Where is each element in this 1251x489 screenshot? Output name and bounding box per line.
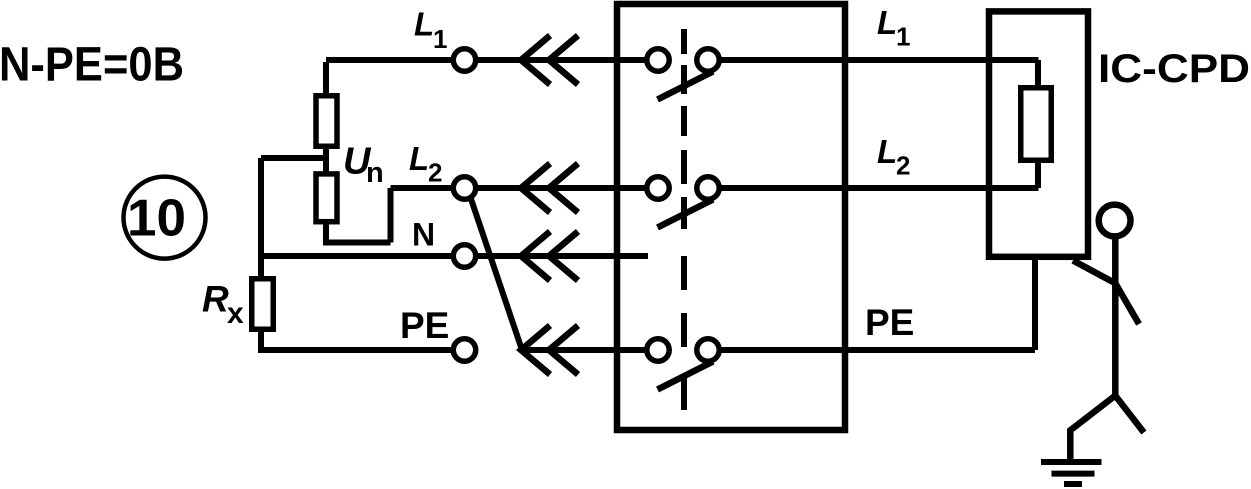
- svg-text:L: L: [877, 133, 897, 170]
- wire L1 from divider to terminal: [326, 57, 451, 63]
- wire divider bottom lead: [323, 222, 329, 243]
- contactor box: [617, 4, 845, 430]
- svg-text:IC-CPD: IC-CPD: [1098, 47, 1250, 91]
- wire PE riser up to IC-CPD bottom: [1032, 254, 1038, 350]
- wire L2 to terminal: [391, 185, 452, 191]
- wire L1 inside contactor to IC-CPD: [722, 57, 1039, 63]
- switch pole L2 blade: [658, 200, 714, 228]
- ground symbol bar 3: [1064, 481, 1082, 487]
- IC-CPD enclosure box: [989, 11, 1088, 256]
- switch pole L1 blade: [658, 72, 714, 100]
- switch pole L2 right contact: [697, 177, 719, 199]
- switch pole PE left contact: [647, 339, 669, 361]
- terminal L2: [453, 177, 475, 199]
- wire N stub into contactor: [478, 253, 648, 259]
- svg-text:n: n: [366, 157, 384, 189]
- wire fault diagonal from L2 terminal to PE arrow: [470, 196, 522, 349]
- wire IC-CPD resistor top lead: [1035, 60, 1041, 88]
- wire L2 from terminal to contactor: [478, 185, 645, 191]
- wire L1 from terminal to contactor: [478, 57, 645, 63]
- svg-text:x: x: [227, 297, 244, 330]
- terminal N: [453, 245, 475, 267]
- person right leg: [1115, 396, 1144, 433]
- svg-text:L: L: [409, 140, 429, 177]
- wire left vertical to N node: [258, 158, 264, 256]
- svg-text:R: R: [202, 279, 229, 320]
- terminal PE: [453, 339, 475, 361]
- wire PE from Rx to terminal: [258, 347, 451, 353]
- wire divider middle lead: [323, 147, 329, 175]
- switch pole L1 left contact: [647, 49, 669, 71]
- person left leg: [1070, 396, 1115, 460]
- wire step bottom horizontal: [323, 240, 391, 246]
- wire Rx top lead: [258, 253, 264, 279]
- resistor R1 upper divider: [316, 96, 337, 147]
- svg-text:1: 1: [433, 24, 447, 54]
- test number circle 10: [124, 177, 206, 259]
- arrow chevrons L1: [521, 36, 578, 85]
- resistor Rx: [252, 279, 274, 330]
- wire divider top lead: [323, 62, 329, 93]
- ground symbol bar 2: [1052, 471, 1095, 477]
- arrow chevrons PE: [521, 326, 578, 375]
- wire PE from arrow to contactor: [521, 347, 645, 353]
- wire Rx bottom lead: [258, 329, 264, 353]
- person head: [1099, 205, 1131, 237]
- wire L2 inside contactor to IC-CPD: [722, 185, 1039, 191]
- svg-text:PE: PE: [400, 305, 449, 346]
- person second arm: [1115, 283, 1139, 324]
- switch pole PE blade: [658, 362, 714, 390]
- svg-text:PE: PE: [865, 302, 914, 343]
- wire N from divider midpoint node to terminal: [261, 253, 451, 259]
- resistor R2 lower divider: [316, 174, 337, 222]
- arrow chevrons N: [521, 232, 578, 281]
- wire step vertical up to L2: [388, 188, 394, 243]
- arrow chevrons L2: [521, 164, 578, 213]
- svg-text:2: 2: [428, 158, 442, 188]
- ground symbol bar 1: [1041, 459, 1102, 465]
- dashed mechanical linkage: [681, 29, 687, 410]
- resistor load in IC-CPD: [1021, 88, 1052, 161]
- person arm touching enclosure: [1073, 261, 1115, 284]
- svg-text:N-PE=0B: N-PE=0B: [0, 39, 184, 92]
- switch pole PE right contact: [697, 339, 719, 361]
- wire branch from divider midpoint to left: [261, 155, 326, 161]
- switch pole L2 left contact: [647, 177, 669, 199]
- svg-text:2: 2: [896, 151, 910, 181]
- svg-text:1: 1: [896, 22, 910, 52]
- terminal L1: [453, 49, 475, 71]
- svg-text:L: L: [414, 6, 434, 43]
- svg-text:N: N: [412, 217, 435, 253]
- wire PE inside contactor to riser: [722, 347, 1036, 353]
- svg-text:L: L: [877, 4, 897, 41]
- switch pole L1 right contact: [697, 49, 719, 71]
- person body: [1112, 239, 1119, 396]
- wire IC-CPD resistor bottom lead: [1035, 160, 1041, 188]
- svg-text:10: 10: [127, 190, 186, 248]
